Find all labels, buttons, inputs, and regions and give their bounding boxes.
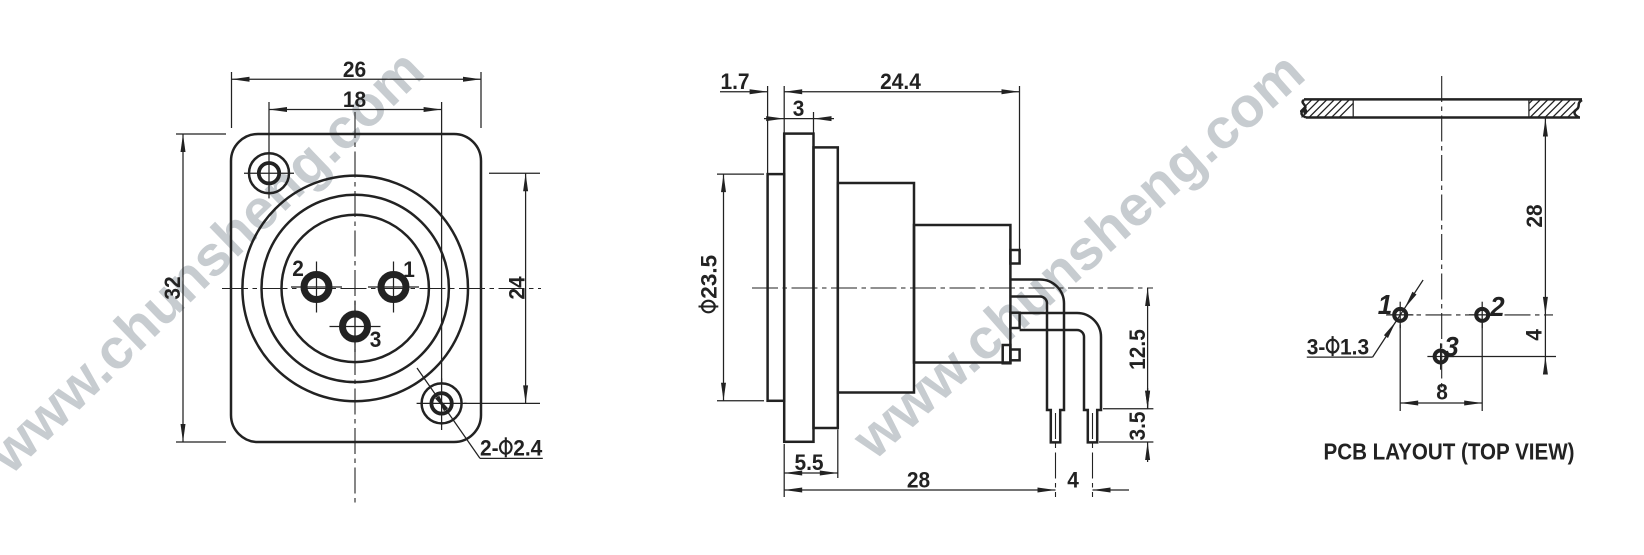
dimension phi23.5 text — [697, 255, 722, 312]
svg-text:28: 28 — [907, 467, 930, 492]
mounting hole bottom-right outer — [422, 383, 462, 423]
dimension 5.5 arrows — [784, 471, 802, 476]
front view middle circle — [262, 195, 449, 382]
side view terminal tab 1 — [1010, 250, 1019, 264]
dimension phi23.5 extension lines — [717, 173, 764, 175]
front view outer shell circle — [242, 176, 468, 402]
svg-text:1.7: 1.7 — [720, 69, 749, 94]
pin 1 crosshair — [368, 286, 419, 288]
svg-text:2: 2 — [292, 256, 304, 281]
svg-text:2.4: 2.4 — [513, 436, 543, 461]
label 3-phi1.3 arrows — [1384, 322, 1396, 338]
label 2-phi2.4 arrows — [436, 395, 448, 411]
dimension 26 arrows — [232, 77, 250, 82]
pin 2 contact — [304, 275, 329, 300]
svg-text:2-: 2- — [480, 436, 499, 461]
pcb strip right hatch boundary — [1528, 99, 1530, 117]
dimension 18 arrows — [269, 107, 287, 112]
pcb panel strip bottom edge — [1306, 116, 1580, 119]
dimension 26 line — [232, 78, 482, 80]
svg-text:1: 1 — [1378, 289, 1393, 320]
dimension 18 line — [269, 109, 442, 111]
label 2-phi2.4 leader — [417, 368, 480, 458]
pcb pad 3 crosshair — [1427, 356, 1453, 358]
mounting hole top-left crosshair — [244, 172, 294, 174]
dimension 24.4 arrows — [784, 89, 802, 94]
svg-text:24.4: 24.4 — [880, 69, 921, 94]
dimension 12.5 arrows — [1145, 288, 1150, 306]
pin 3 crosshair — [330, 326, 381, 328]
dimension 3.5 arrows — [1145, 391, 1150, 409]
side view panel plate — [784, 134, 813, 442]
pcb leg 1 (front) bent pin — [1010, 280, 1064, 443]
mounting hole bottom-right inner — [431, 393, 451, 413]
mounting hole top-left outer — [249, 153, 289, 193]
dimension 32 line — [182, 134, 184, 442]
svg-text:2: 2 — [1489, 291, 1505, 322]
pcb pad 1 crosshair — [1387, 314, 1413, 316]
pcb dimension 28 arrows — [1543, 119, 1548, 137]
svg-text:5.5: 5.5 — [794, 450, 823, 475]
pin 3 contact — [343, 314, 368, 339]
mounting hole top-left inner — [259, 163, 279, 183]
pcb pad 3 — [1435, 351, 1447, 363]
front view vertical centerline — [354, 112, 356, 505]
svg-text:3-: 3- — [1307, 334, 1326, 359]
pcb pad 2 — [1476, 309, 1488, 321]
svg-text:32: 32 — [160, 276, 185, 299]
svg-text:4: 4 — [1067, 467, 1079, 492]
side view terminal tab 3 block — [1003, 345, 1011, 363]
dimension 3 arrows — [766, 116, 784, 121]
pin 2 crosshair — [291, 286, 342, 288]
svg-text:PCB LAYOUT (TOP VIEW): PCB LAYOUT (TOP VIEW) — [1324, 439, 1575, 465]
dimension 3 extension line — [813, 112, 815, 146]
dimension 5.5 extension lines — [783, 444, 785, 497]
front view square flange plate — [231, 134, 481, 442]
pcb panel strip top edge — [1304, 98, 1582, 101]
dimension 28 arrows — [784, 488, 802, 493]
side view rear housing — [914, 225, 1010, 363]
dimension 3.5 line — [1147, 388, 1149, 409]
svg-text:1.3: 1.3 — [1340, 334, 1369, 359]
dimension 1.7 arrow — [750, 89, 768, 94]
pcb pad3 extension line — [1447, 356, 1556, 358]
svg-text:3: 3 — [793, 96, 805, 121]
svg-text:23.5: 23.5 — [697, 255, 722, 299]
dimension 12.5 extension lines — [1103, 408, 1153, 410]
svg-text:3.5: 3.5 — [1125, 411, 1150, 440]
pcb panel strip left break — [1301, 100, 1306, 118]
dimension 26 extension lines — [231, 72, 233, 128]
pcb dimension 8 extension lines — [1399, 325, 1401, 411]
svg-text:26: 26 — [343, 57, 366, 82]
dimension 24.4 extension line — [1019, 86, 1021, 249]
svg-text:28: 28 — [1522, 204, 1547, 227]
pcb dimension 4 arrows — [1543, 357, 1548, 375]
svg-text:3: 3 — [1444, 331, 1459, 362]
side view terminal tab 2 — [1010, 313, 1019, 328]
svg-text:4: 4 — [1522, 329, 1547, 341]
svg-text:12.5: 12.5 — [1125, 329, 1150, 370]
dimension 3 line — [764, 118, 834, 120]
label 3-phi1.3 leader — [1307, 356, 1373, 358]
side view axis centerline — [752, 287, 1153, 289]
pcb layout pin row centerline — [1386, 314, 1553, 316]
dimension 4 line — [1093, 489, 1130, 491]
side view barrel — [838, 183, 914, 393]
mounting hole bottom-right crosshair — [417, 402, 467, 404]
dimension 12.5 line — [1147, 288, 1149, 409]
side view bezel ring — [814, 147, 838, 428]
pcb pad 2 crosshair — [1469, 314, 1495, 316]
dimension 4 arrow — [1093, 488, 1111, 493]
svg-text:8: 8 — [1436, 380, 1448, 405]
pcb strip right hatching — [1515, 99, 1586, 118]
pcb leg 2 (rear) bent pin — [1020, 313, 1101, 442]
pcb dimension 28 line — [1544, 119, 1546, 375]
dimension 18 extension lines — [268, 102, 270, 148]
pcb strip left hatching — [1294, 99, 1358, 118]
dimension 32 extension lines — [176, 133, 226, 135]
dimension phi23.5 arrows — [721, 174, 726, 192]
dimension 32 arrows — [181, 134, 186, 152]
dimension 1.7 line — [720, 91, 768, 93]
pcb dimension 8 arrows — [1400, 401, 1418, 406]
pcb strip left hatch boundary — [1352, 99, 1354, 117]
svg-text:3: 3 — [370, 327, 382, 352]
svg-text:18: 18 — [343, 87, 366, 112]
dimension 28 line — [784, 489, 1055, 491]
leg 2 centerline — [1092, 413, 1094, 497]
dimension 1.7 extension lines — [767, 86, 769, 173]
dimension 5.5 line — [784, 472, 838, 474]
pcb pad 1 — [1394, 309, 1406, 321]
front view insert circle — [282, 215, 429, 362]
side view terminal tab 3 — [1010, 350, 1019, 361]
dimension 24 extension lines — [489, 172, 540, 174]
dimension 24 arrows — [523, 173, 528, 191]
side view front rim — [768, 174, 785, 401]
dimension 24 line — [525, 173, 527, 403]
pcb panel strip right break — [1574, 100, 1582, 118]
svg-text:1: 1 — [403, 257, 415, 282]
pin 1 contact — [381, 275, 406, 300]
dimension 24.4 line — [784, 91, 1019, 93]
front view horizontal centerline — [222, 288, 541, 290]
svg-text:24: 24 — [505, 276, 530, 300]
dimension phi23.5 line — [723, 174, 725, 401]
leg 1 centerline — [1055, 413, 1057, 497]
pcb dimension 8 line — [1400, 402, 1482, 404]
pcb layout vertical centerline — [1441, 76, 1443, 390]
